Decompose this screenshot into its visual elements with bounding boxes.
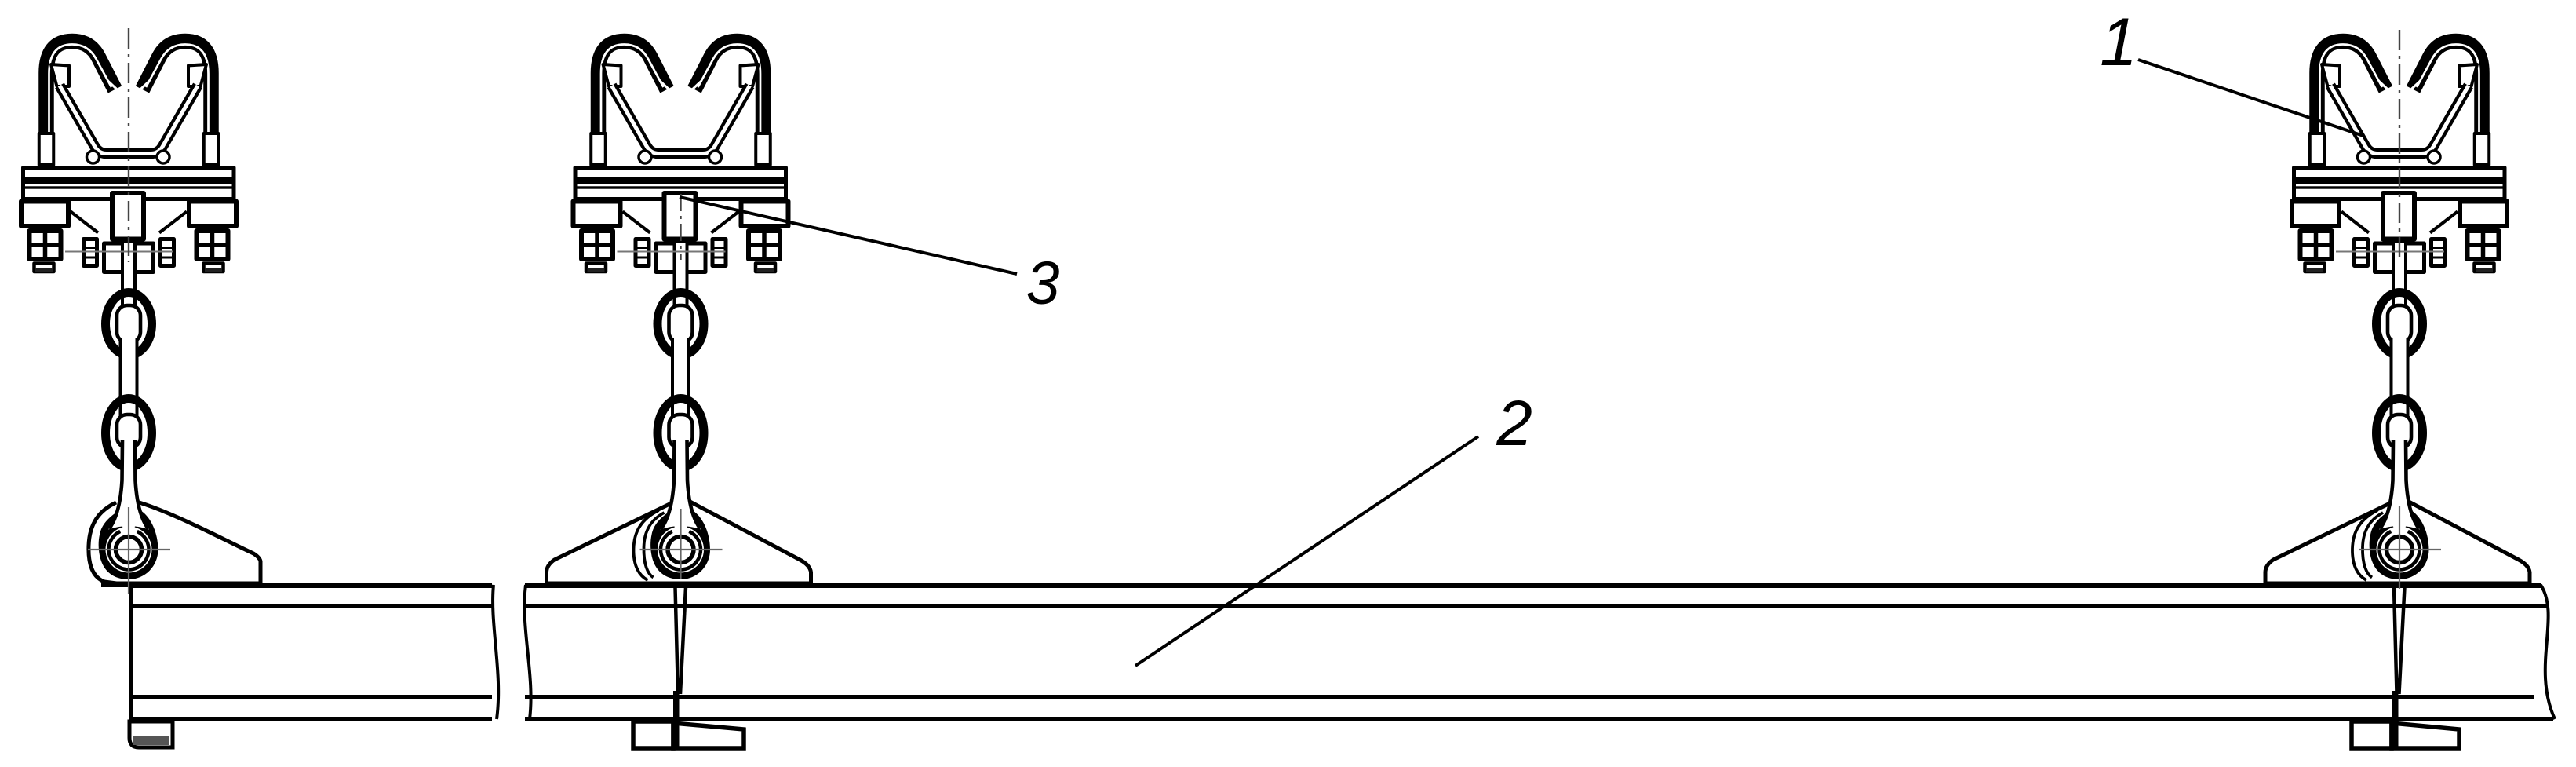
left centerline: [128, 28, 129, 262]
beam segment 2 left break edge: [524, 585, 530, 719]
beam segment 2 top line: [525, 583, 2541, 588]
beam segment 1 third line: [129, 695, 492, 699]
right foot right box: [2392, 723, 2459, 748]
left bracket vertical centerline: [128, 507, 129, 594]
beam segment 1 top line: [129, 583, 492, 588]
middle bracket: [547, 501, 811, 587]
left bracket boss outline: [89, 502, 126, 585]
right joint line: [2392, 691, 2399, 748]
beam segment 1 bottom line: [129, 717, 492, 721]
middle bracket vertical centerline: [680, 509, 681, 579]
svg-text:3: 3: [1026, 250, 1060, 317]
clamp assembly 3 (right): [2292, 42, 2507, 572]
left bracket fill: [87, 502, 261, 587]
beam segment 1 left edge: [129, 584, 134, 723]
beam segment 1 break edge: [493, 585, 498, 719]
middle bracket horizontal centerline: [640, 549, 723, 550]
middle joint V lines: [676, 587, 687, 694]
middle foot left box: [633, 721, 673, 748]
leader line 2: [1135, 436, 1478, 666]
right centerline: [2399, 30, 2400, 262]
left bracket base bar: [101, 582, 261, 588]
beam segment 2 third line: [525, 695, 2534, 699]
beam segment 2 right break edge: [2541, 585, 2555, 719]
right bracket horizontal centerline: [2359, 549, 2441, 550]
left bracket crescent: [99, 510, 158, 579]
left bracket horizontal centerline: [88, 549, 170, 550]
beam segment 2 second line: [525, 604, 2549, 608]
clamp assembly 2 (middle): [574, 42, 789, 572]
right foot left box: [2352, 721, 2392, 748]
left bracket plate fill: [87, 502, 261, 586]
right joint V lines: [2394, 587, 2405, 694]
right bracket: [2265, 501, 2530, 587]
leader line 3: [680, 197, 1017, 274]
left bracket right slope: [137, 502, 261, 586]
left end foot dark band: [133, 736, 169, 745]
middle foot right box: [673, 723, 744, 748]
beam segment 2 bottom line: [525, 717, 2553, 721]
right bracket vertical centerline: [2399, 506, 2400, 589]
beam segment 1 second line: [129, 604, 492, 608]
leader line 1: [2138, 60, 2363, 136]
svg-text:2: 2: [1496, 388, 1532, 459]
middle block centerline: [680, 194, 681, 260]
middle joint line: [673, 691, 680, 748]
clamp assembly 1 (left): [21, 42, 236, 572]
left end foot: [129, 721, 173, 747]
svg-text:1: 1: [2100, 5, 2137, 80]
